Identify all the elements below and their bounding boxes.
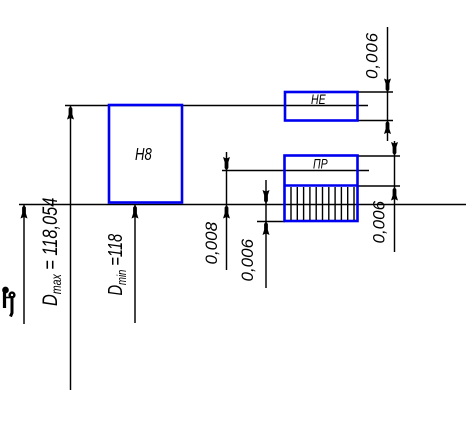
- svg-text:Dmax = 118,054: Dmax = 118,054: [38, 198, 64, 306]
- svg-text:ПР: ПР: [313, 156, 328, 172]
- PR gauge zone box: [285, 156, 358, 222]
- PR box divider line: [285, 184, 358, 187]
- svg-text:H8: H8: [135, 145, 152, 164]
- svg-text:0,006: 0,006: [370, 200, 389, 243]
- left 0,006 top arrow: [263, 190, 270, 204]
- svg-text:Dmin =118: Dmin =118: [104, 234, 130, 296]
- svg-text:0,008: 0,008: [202, 221, 221, 264]
- NE box top extension line: [357, 91, 393, 93]
- D_min arrow: [132, 205, 139, 219]
- left 0,006 dimension line: [265, 180, 267, 288]
- D_max arrow: [67, 106, 74, 120]
- left 0,006 bottom arrow: [263, 222, 270, 236]
- PR box divider extension line: [357, 185, 400, 187]
- D_max line: [65, 105, 368, 107]
- svg-text:0,006: 0,006: [363, 32, 382, 79]
- 0,008 bottom arrow: [223, 205, 230, 219]
- PR height top arrow: [391, 142, 398, 156]
- PR height bottom arrow: [391, 187, 398, 201]
- tolerance zone H8 box: [109, 105, 182, 203]
- left leader arrow: [21, 205, 28, 219]
- PR box bottom left extension line: [257, 221, 285, 223]
- PR box top extension line: [357, 155, 400, 157]
- left symbol glyph: [3, 287, 15, 316]
- 0,008 dimension line: [226, 152, 228, 270]
- 0,008 top arrow: [223, 157, 230, 171]
- NE gauge zone box: [285, 92, 358, 121]
- D_max dimension line: [70, 106, 72, 390]
- hatching of wear zone: [291, 187, 354, 220]
- NE height dimension line: [387, 27, 389, 141]
- PR height dimension line: [394, 141, 396, 252]
- NE box bottom extension line: [357, 120, 393, 122]
- zero line (D_min nominal line): [19, 204, 466, 206]
- svg-text:0,006: 0,006: [238, 238, 257, 281]
- svg-text:НЕ: НЕ: [311, 92, 326, 108]
- D_min dimension line: [134, 205, 136, 323]
- NE height top arrow: [384, 79, 391, 93]
- PR gauge center line: [222, 170, 369, 172]
- NE height bottom arrow: [384, 121, 391, 135]
- left leader dimension line: [23, 205, 25, 324]
